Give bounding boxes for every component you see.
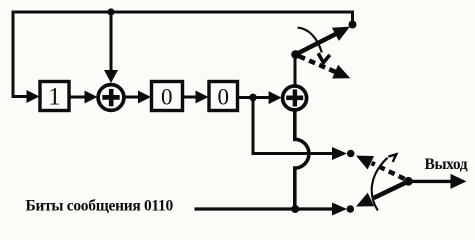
- wire: tap from top rail down into XOR adder A1: [110, 12, 113, 72]
- junction: top rail tap above first XOR adder: [107, 8, 114, 15]
- XOR adder A2 (modulo-2 adder, circle with plus): [283, 86, 307, 110]
- arrowhead: into XOR adder A1 from top: [104, 70, 118, 83]
- wire: XOR adder A1 output to register cell SR2: [125, 96, 140, 99]
- shift-register cell SR1 (value 1): [40, 82, 69, 111]
- arrowhead: feedback input into register cell SR1: [27, 90, 40, 103]
- arrowhead: into switch S2 upper contact: [332, 147, 347, 160]
- arrowhead: into switch S2 lower contact: [332, 203, 347, 216]
- switch S2 dashed arm (alternate position) toward upper contact: [372, 163, 405, 179]
- shift-register cell SR2 (value 0): [152, 82, 183, 111]
- rotation arrow for switch S1: [298, 28, 330, 63]
- svg-text:Выход: Выход: [425, 156, 468, 173]
- arrowhead: switch S2 dashed arm: [356, 156, 374, 170]
- junction: SR3 output tap to lower branch: [249, 94, 257, 102]
- arrowhead: into XOR adder A1 from SR1: [85, 91, 98, 104]
- svg-text:Биты сообщения 0110: Биты сообщения 0110: [26, 198, 174, 215]
- switch S1 pivot node: [291, 50, 300, 59]
- wire: SR2 output to register cell SR3: [183, 96, 197, 99]
- switch S2 solid arm (current position) toward lower contact: [374, 181, 409, 198]
- XOR adder A1 (modulo-2 adder, circle with plus): [98, 85, 124, 111]
- contact: switch S1 upper contact (to feedback rail): [349, 21, 357, 29]
- junction: lower branch joins message line: [291, 205, 299, 213]
- arrowhead: switch S1 solid arm: [332, 27, 350, 41]
- switch S2 pivot node: [404, 177, 413, 186]
- arrowhead: switch S2 solid arm: [356, 193, 374, 207]
- switch S1 solid arm (current position) toward upper contact: [296, 33, 337, 54]
- svg-text:0: 0: [161, 84, 173, 109]
- arrowhead: into register cell SR3: [196, 91, 209, 104]
- label: Биты сообщения 0110 (message bits 0110): [26, 198, 174, 215]
- label: Выход (output): [425, 156, 468, 173]
- rotation arrow for switch S2: [372, 154, 397, 210]
- wire: XOR adder A2 output down to lower branch with hop over horizontal wire: [295, 110, 309, 209]
- wire: SR3 output to XOR adder A2: [238, 96, 271, 99]
- wire: SR1 output to XOR adder A1: [69, 96, 87, 99]
- svg-text:1: 1: [48, 83, 61, 110]
- arrowhead: output: [451, 174, 467, 189]
- wire: switch S2 pivot to output: [408, 180, 453, 183]
- shift-register cell SR3 (value 0): [209, 82, 238, 111]
- wire: feedback rail from output-switch upper contact to encoder input (top rail, left drop, entry segment): [13, 12, 353, 97]
- contact: switch S2 upper contact: [347, 150, 355, 158]
- contact: switch S2 lower contact: [347, 205, 355, 213]
- wire: XOR adder A2 output up to switch S1 pivot: [294, 55, 297, 87]
- arrowhead: into register cell SR2: [138, 91, 151, 104]
- arrowhead: into XOR adder A2 from SR3: [269, 91, 282, 104]
- wire: from SR3 tap down and right to switch S2 upper contact: [253, 99, 334, 154]
- arrowhead: switch S1 dashed arm: [332, 65, 350, 79]
- svg-text:0: 0: [217, 84, 229, 109]
- wire: message-bit input line to switch S2 lower contact: [195, 207, 334, 210]
- switch S1 dashed arm (alternate position): [299, 56, 336, 72]
